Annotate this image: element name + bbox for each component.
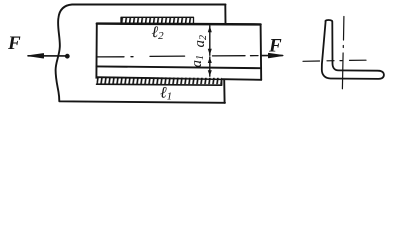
svg-text:ℓ2: ℓ2 xyxy=(152,24,165,42)
angle bar: flange inner line xyxy=(96,66,260,68)
weld l1 hatched strip (bottom flank weld) xyxy=(97,77,222,85)
gusset plate right edge (upper visible part) xyxy=(224,5,226,24)
dimension a1 arrow xyxy=(208,57,212,76)
angle cross-section outline xyxy=(322,20,384,79)
svg-text:a2: a2 xyxy=(192,35,209,48)
node: axis dot xyxy=(65,54,70,59)
right force arrow F xyxy=(262,53,284,57)
angle bar: bottom edge xyxy=(96,77,261,80)
section horizontal centroid axis xyxy=(303,60,366,61)
centroid axis (dash-dot centerline) xyxy=(97,56,259,57)
svg-text:a1: a1 xyxy=(189,55,206,68)
gusset plate outline (top edge, rounded corner, wavy break line, bottom edge) xyxy=(56,5,226,103)
svg-text:F: F xyxy=(268,36,282,57)
svg-text:ℓ1: ℓ1 xyxy=(160,85,172,103)
angle bar: left end edge xyxy=(95,24,97,78)
dimension a2 arrow xyxy=(208,26,212,56)
angle bar: right end edge xyxy=(260,24,263,79)
left force arrow F xyxy=(28,54,70,59)
angle bar: top edge xyxy=(97,22,261,25)
section vertical centroid axis xyxy=(342,17,344,89)
weld l2 hatched strip (top flank weld) xyxy=(121,17,194,23)
svg-text:F: F xyxy=(7,33,21,54)
gusset plate right edge (lower visible part) xyxy=(223,80,225,103)
